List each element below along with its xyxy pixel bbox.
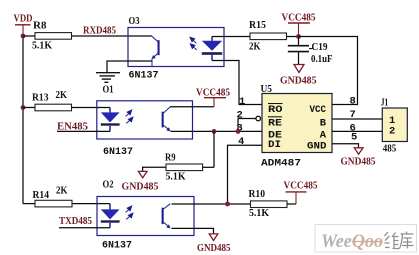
wire O2 collector to DI node [172, 203, 251, 205]
wire U5 pin 4 to R10 node [228, 145, 263, 204]
svg-text:VCC485: VCC485 [284, 181, 318, 192]
svg-text:VCC485: VCC485 [196, 87, 230, 98]
power VCC485 bottom [284, 181, 318, 204]
wire U5 pin 2 with inversion bubble [238, 116, 261, 131]
wire R13 to O1 [72, 107, 111, 109]
wire VCC485 junction to U5 pin 8 [299, 37, 358, 105]
svg-text:EN485: EN485 [57, 122, 88, 133]
wire VDD rail left [22, 36, 24, 204]
svg-text:5.1K: 5.1K [166, 171, 186, 183]
ground GND485 right [341, 148, 376, 168]
ground (digital) [96, 73, 120, 83]
svg-text:R8: R8 [33, 20, 47, 32]
ground GND485 mid-left [122, 171, 159, 192]
node VDD-R13 junction [21, 105, 26, 110]
resistor R14 [33, 185, 73, 207]
connector J1 [381, 97, 408, 155]
resistor R9 [165, 152, 203, 183]
wire U5 pin 6 (A) to J1 [332, 130, 382, 132]
wire R9 right [203, 166, 214, 168]
svg-text:GND485: GND485 [197, 243, 231, 254]
ground GND485 top [280, 65, 317, 87]
wire R15 to junction [287, 36, 299, 38]
resistor R10 [249, 188, 288, 219]
node pin2-pin3 junction [236, 129, 241, 134]
svg-text:5.1K: 5.1K [32, 40, 52, 52]
LED O2 arrows [126, 206, 133, 219]
svg-text:U5: U5 [261, 83, 273, 95]
svg-text:2K: 2K [56, 185, 68, 197]
capacitor C19 [288, 37, 333, 65]
transistor O1 phototransistor [162, 107, 171, 131]
LED O3 (in optocoupler) [202, 37, 222, 61]
svg-text:RO: RO [268, 104, 283, 116]
svg-text:GND485: GND485 [122, 181, 159, 192]
wire R9 riser [213, 131, 215, 167]
svg-text:RXD485: RXD485 [83, 26, 116, 37]
wire R14 left [23, 203, 35, 205]
svg-text:R9: R9 [165, 152, 176, 164]
op-amp U5 ADM487 [261, 83, 333, 170]
svg-text:O3: O3 [129, 15, 140, 27]
optocoupler O1 [97, 84, 193, 158]
svg-text:6N137: 6N137 [129, 70, 159, 82]
transistor O2 phototransistor [162, 204, 171, 229]
wire R9 left to ground [143, 167, 166, 171]
power VDD [14, 13, 33, 37]
LED O2 [101, 204, 120, 228]
svg-text:5: 5 [351, 132, 357, 144]
svg-text:B: B [320, 117, 327, 129]
svg-text:RE: RE [268, 117, 282, 129]
svg-text:2K: 2K [249, 41, 261, 53]
wire R13 left [23, 107, 35, 109]
svg-text:485: 485 [383, 144, 397, 155]
svg-text:6N137: 6N137 [102, 239, 132, 251]
optocoupler O3 [128, 15, 224, 82]
svg-text:2K: 2K [56, 89, 68, 101]
svg-text:0.1uF: 0.1uF [311, 54, 333, 65]
wire O1 emitter / U5 pin 3 [171, 130, 263, 132]
wire U5 pin 5 to ground [332, 144, 359, 148]
watermark [315, 225, 417, 253]
svg-text:GND485: GND485 [280, 75, 317, 86]
node R9 junction [212, 129, 217, 134]
svg-text:R15: R15 [249, 19, 266, 31]
svg-text:R14: R14 [33, 189, 50, 201]
LED O1 arrows [126, 110, 133, 123]
wire O3 LED cathode to U5 pin 1 [212, 61, 262, 105]
node VCC485 junction [296, 34, 301, 39]
resistor R13 [32, 89, 72, 111]
wire O2 emitter to ground [172, 228, 214, 233]
svg-text:ADM487: ADM487 [261, 157, 301, 169]
wire EN485 stub [57, 130, 110, 132]
node DI junction [225, 202, 230, 207]
svg-text:5.1K: 5.1K [249, 207, 269, 219]
LED O1 [101, 108, 120, 132]
power VCC485 mid [196, 87, 230, 106]
svg-text:DI: DI [268, 139, 281, 151]
wire R14 to O2 [72, 203, 110, 205]
transistor O3 phototransistor [152, 36, 160, 66]
LED O3 arrows [190, 37, 197, 50]
svg-text:4: 4 [238, 136, 244, 148]
svg-text:GND485: GND485 [341, 156, 376, 167]
node VDD-R8 junction [21, 34, 26, 39]
svg-text:VDD: VDD [14, 13, 33, 25]
wire O3 LED anode to R15 [212, 36, 250, 38]
svg-text:R13: R13 [32, 92, 49, 104]
svg-text:GND: GND [307, 141, 327, 153]
wire O1 collector to VCC485 [170, 106, 214, 108]
svg-text:O1: O1 [103, 84, 114, 96]
svg-text:O2: O2 [103, 179, 114, 191]
wire R8 to O3 (net RXD485) [72, 35, 153, 37]
optocoupler O2 [97, 179, 194, 252]
svg-text:2: 2 [389, 125, 395, 137]
wire TXD485 stub [59, 227, 110, 229]
wire R10 right [287, 203, 296, 205]
svg-text:R10: R10 [249, 188, 266, 200]
svg-text:1: 1 [239, 96, 245, 108]
power VCC485 top [282, 12, 316, 36]
wire U5 pin 7 (B) to J1 [332, 118, 382, 120]
svg-text:VCC: VCC [310, 104, 327, 116]
wire O3 emitter to ground [107, 61, 152, 72]
wire R8 left [23, 35, 35, 37]
ground GND485 bottom [197, 234, 231, 254]
resistor R15 [249, 19, 287, 53]
svg-text:6N137: 6N137 [103, 146, 133, 158]
svg-text:A: A [320, 129, 327, 141]
resistor R8 [32, 20, 72, 52]
svg-text:VCC485: VCC485 [282, 12, 316, 23]
svg-text:TXD485: TXD485 [59, 216, 92, 227]
svg-text:8: 8 [350, 95, 356, 107]
svg-text:J1: J1 [381, 97, 389, 109]
svg-text:C19: C19 [312, 42, 328, 53]
